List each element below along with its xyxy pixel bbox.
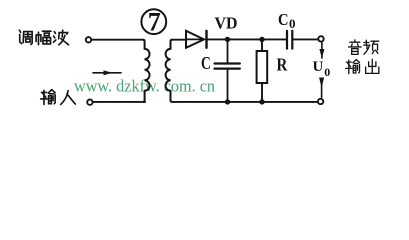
node: output terminal top-right [318,36,323,41]
wire: secondary top lead to diode anode [172,39,186,41]
wire: bottom rail [172,101,317,103]
svg-text:C: C [201,53,211,73]
capacitor C0 (coupling) [287,31,318,49]
node: input terminal top-left [86,37,91,42]
arrow: output voltage U0 lower segment [319,78,324,98]
arrow: output voltage U0 upper segment [319,43,324,59]
svg-text:U: U [313,59,324,75]
node: input terminal bottom-left [87,100,92,105]
wire: diode cathode to output node [207,38,286,40]
label 调幅波 (AM wave) [19,30,68,45]
svg-text:0: 0 [289,16,296,31]
label 输入 (input) [41,90,76,105]
node: junction detector output / capacitor C [225,37,230,42]
node: output terminal bottom-right [318,99,323,104]
arrow: input signal direction [93,70,121,75]
transformer T primary winding [143,40,150,102]
label U0 [313,59,331,79]
figure number 7 (circled) [141,7,166,36]
svg-text:7: 7 [148,7,161,36]
wire: bottom-left input lead [93,101,145,103]
label C0 [278,10,296,31]
svg-text:R: R [277,55,289,75]
diode VD [186,31,207,48]
wire: top-left input lead [92,39,143,41]
node: junction resistor R bottom [259,99,264,104]
resistor R [257,39,268,102]
svg-text:0: 0 [324,65,330,79]
transformer T secondary winding [166,40,173,102]
svg-text:C: C [278,10,289,29]
node: junction capacitor C bottom [225,99,230,104]
svg-text:VD: VD [215,13,238,32]
node: junction resistor R top [259,37,264,42]
capacitor C [215,39,240,102]
label 音频输出 (audio output) [346,40,379,74]
